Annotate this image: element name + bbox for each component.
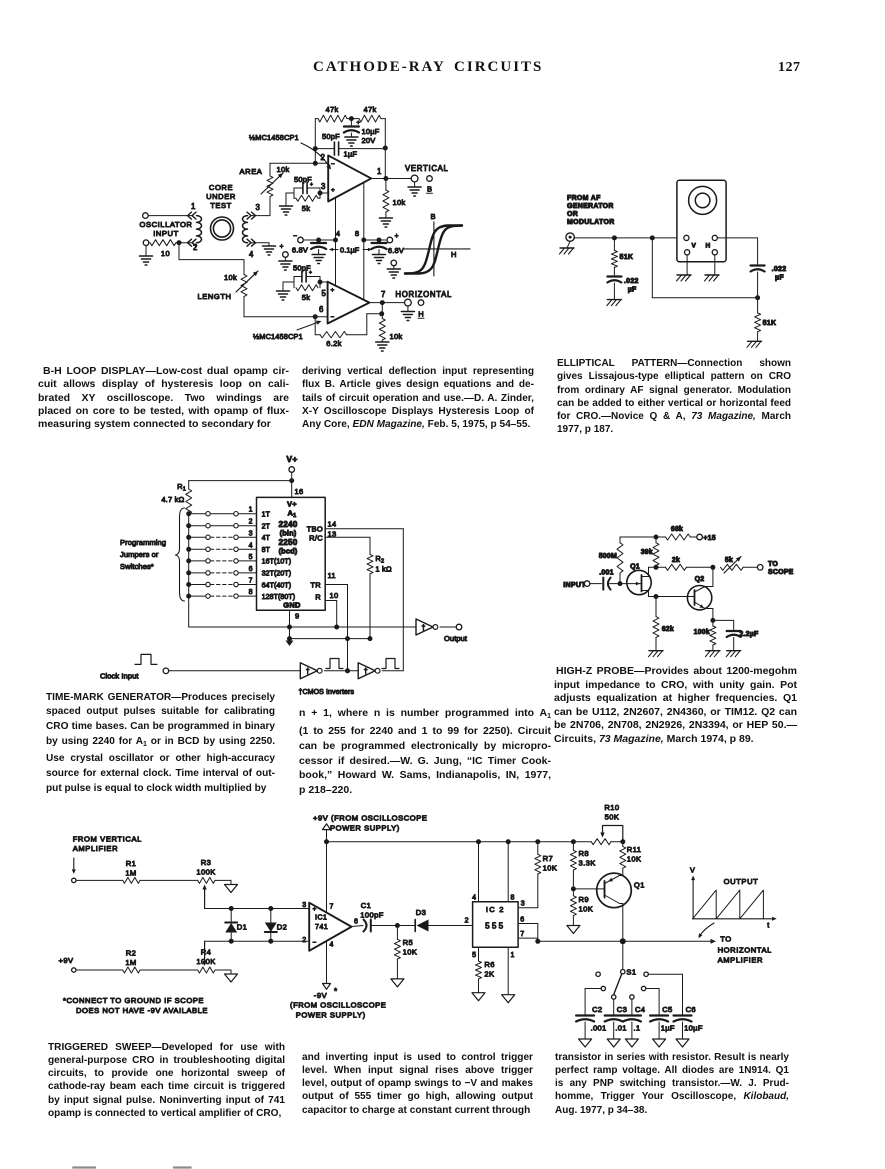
- svg-text:4: 4: [336, 229, 340, 238]
- svg-text:FROM AF: FROM AF: [567, 195, 601, 202]
- label bcd: [279, 547, 298, 556]
- label S1: [626, 968, 636, 977]
- wire pin1 down: [507, 947, 509, 994]
- ground under vertical jack: [408, 187, 421, 196]
- wire R3 to ground arm: [215, 880, 231, 883]
- label H scope: [706, 243, 711, 250]
- svg-text:OR: OR: [567, 211, 578, 218]
- svg-text:10k: 10k: [393, 198, 406, 207]
- label V+ top: [286, 454, 297, 464]
- terminal sweep input: [72, 878, 76, 882]
- svg-text:R1: R1: [126, 859, 137, 868]
- wire contact to C5: [646, 989, 659, 1016]
- svg-text:AMPLIFIER: AMPLIFIER: [73, 844, 119, 853]
- hysteresis loop: [405, 226, 462, 274]
- oscilloscope screen: [689, 186, 717, 214]
- svg-text:H: H: [706, 243, 711, 250]
- svg-text:TR: TR: [310, 581, 321, 590]
- capacitor .022uF right: [751, 238, 765, 313]
- svg-text:4: 4: [472, 895, 476, 902]
- leader arrow to U1b: [297, 321, 322, 330]
- svg-text:*CONNECT TO GROUND IF SCOPE: *CONNECT TO GROUND IF SCOPE: [63, 996, 204, 1005]
- node junction at 10 ohm output: [177, 240, 182, 245]
- svg-text:.001: .001: [591, 1024, 607, 1033]
- hysteresis axes: [403, 222, 470, 276]
- svg-text:INPUT: INPUT: [153, 229, 179, 238]
- resistor R2 1k: [367, 554, 373, 638]
- svg-text:6.8V: 6.8V: [388, 246, 404, 255]
- svg-text:3.3K: 3.3K: [579, 859, 596, 868]
- terminal V upper: [684, 235, 689, 240]
- node pins67: [535, 939, 540, 944]
- capacitor .022uF left: [607, 277, 621, 300]
- label VERTICAL: [405, 164, 449, 173]
- page header: [313, 59, 543, 76]
- wire winding4 to ground: [251, 243, 269, 246]
- ground under coax: [560, 241, 575, 254]
- svg-text:5: 5: [322, 289, 327, 298]
- label pin 4 supply: [336, 229, 340, 238]
- wire opamp out to C1: [352, 926, 363, 927]
- ground under 10k vertical: [379, 218, 392, 227]
- label R5: [403, 938, 414, 947]
- label GND inside: [283, 601, 301, 610]
- wire V+ to R1: [189, 480, 292, 482]
- transistor Q1 pnp: [597, 873, 632, 941]
- svg-text:10: 10: [161, 249, 170, 258]
- switch contact C2: [601, 986, 605, 990]
- svg-text:32T(20T): 32T(20T): [262, 571, 292, 578]
- svg-text:10K: 10K: [579, 905, 594, 914]
- wire output2 down: [381, 303, 383, 319]
- resistor R1 1M: [123, 877, 140, 883]
- svg-text:7: 7: [520, 931, 525, 938]
- svg-text:AMPLIFIER: AMPLIFIER: [718, 955, 764, 964]
- svg-text:INPUT: INPUT: [563, 582, 586, 589]
- label 68k: [671, 526, 683, 533]
- label 10k length: [224, 273, 237, 282]
- scan mark right: [173, 1166, 192, 1168]
- node between 47k: [349, 116, 354, 121]
- resistor 500M: [617, 537, 623, 584]
- svg-text:+: +: [331, 287, 335, 294]
- svg-text:14: 14: [328, 520, 337, 529]
- node R7 rail top: [535, 839, 540, 844]
- label AREA: [240, 167, 263, 176]
- label pin 3: [256, 203, 261, 212]
- jumper input pin 5 16T(10T): [186, 554, 291, 566]
- wire contact to C4: [631, 999, 633, 1015]
- svg-text:R1: R1: [177, 482, 186, 493]
- resistor R8 3.3K: [570, 842, 576, 889]
- node input rail 1: [612, 235, 617, 240]
- ground under 51K right: [747, 341, 762, 347]
- svg-text:5k: 5k: [302, 204, 311, 213]
- svg-text:2.2µF: 2.2µF: [739, 631, 759, 638]
- label pin3 555: [521, 901, 526, 908]
- label pin 7 IC1: [330, 904, 335, 911]
- svg-text:TEST: TEST: [210, 201, 232, 210]
- label LENGTH: [197, 292, 231, 301]
- wire input row 1: [76, 879, 198, 881]
- terminal V lower: [685, 250, 690, 255]
- svg-text:741: 741: [315, 922, 328, 931]
- inverter 2: [358, 663, 380, 679]
- label pin 7 opamp: [381, 290, 386, 299]
- label 47k first: [326, 105, 339, 114]
- svg-text:3: 3: [302, 902, 306, 909]
- svg-text:10k: 10k: [390, 332, 403, 341]
- svg-text:1M: 1M: [125, 869, 136, 878]
- svg-text:6: 6: [520, 917, 525, 924]
- svg-text:D3: D3: [416, 908, 427, 917]
- terminal oscillator input bottom: [143, 240, 149, 246]
- wire feedback 6.2k: [315, 314, 382, 335]
- terminal H upper: [712, 235, 717, 240]
- svg-text:6: 6: [319, 305, 324, 314]
- svg-text:t: t: [767, 921, 769, 930]
- svg-text:2T: 2T: [262, 524, 271, 531]
- ground aux right: [387, 269, 400, 278]
- label pin 16: [295, 487, 304, 496]
- wire lower loop: [652, 238, 757, 298]
- label Q2 probe: [695, 576, 705, 583]
- svg-text:LENGTH: LENGTH: [197, 292, 231, 301]
- svg-text:9: 9: [295, 612, 299, 621]
- svg-text:MODULATOR: MODULATOR: [567, 219, 615, 226]
- svg-text:C6: C6: [686, 1005, 696, 1014]
- node pin4 rail top: [476, 839, 481, 844]
- label 51K right: [763, 320, 777, 327]
- capacitor 2.2uF: [727, 631, 741, 651]
- svg-text:C4: C4: [635, 1005, 645, 1014]
- terminal coax input: [566, 233, 574, 241]
- resistor 68k: [666, 534, 691, 540]
- switch contact C5: [641, 986, 645, 990]
- svg-text:−: −: [331, 314, 335, 321]
- capacitor 1uF: [334, 142, 338, 155]
- label pin 11: [328, 571, 336, 580]
- ground under .022 left: [607, 300, 622, 306]
- wire contact to C6: [648, 974, 682, 1015]
- wire minus 9V vertical: [326, 941, 328, 984]
- svg-text:DOES NOT HAVE -9V AVAILABLE: DOES NOT HAVE -9V AVAILABLE: [76, 1006, 208, 1015]
- svg-text:4: 4: [249, 250, 254, 259]
- svg-text:Q1: Q1: [630, 564, 640, 571]
- svg-text:10: 10: [330, 591, 339, 600]
- label connect to ground note: [63, 996, 208, 1015]
- potentiometer LENGTH 10k: [236, 271, 258, 297]
- svg-text:−: −: [313, 940, 317, 947]
- svg-text:2: 2: [302, 937, 306, 944]
- wire cap to gate: [610, 583, 627, 585]
- label R10 50K: [605, 813, 620, 822]
- opamp U1a: [328, 155, 371, 201]
- label Output: [444, 634, 468, 643]
- wire pin4 vertical: [335, 198, 337, 286]
- svg-text:50pF: 50pF: [322, 132, 340, 141]
- opamp U1b: [328, 282, 370, 324]
- wire pin4 down: [478, 842, 480, 902]
- potentiometer 5k probe: [721, 557, 744, 574]
- svg-text:8: 8: [249, 589, 253, 596]
- resistor 47k second: [351, 115, 385, 122]
- svg-text:16: 16: [295, 487, 304, 496]
- label Programming Jumpers or Switches: [120, 538, 166, 571]
- svg-text:†: †: [364, 669, 368, 676]
- label INPUT: [563, 582, 586, 589]
- svg-text:R2: R2: [375, 554, 384, 565]
- capacitor C4 .1: [623, 1005, 645, 1039]
- switch contact C6: [644, 972, 648, 976]
- capacitor C3 .01: [605, 1005, 627, 1039]
- label R1: [126, 859, 137, 868]
- capacitor 50pF a: [303, 182, 313, 194]
- svg-text:1T: 1T: [262, 512, 271, 519]
- svg-text:R4: R4: [201, 948, 212, 957]
- svg-text:4: 4: [330, 942, 335, 949]
- wire source to Q2 base: [656, 596, 688, 598]
- svg-text:+: +: [357, 121, 361, 127]
- label 10: [161, 249, 170, 258]
- terminal oscillator input top: [143, 213, 149, 219]
- svg-text:R10: R10: [604, 803, 619, 812]
- label R7: [543, 854, 554, 863]
- label 1uF: [344, 150, 358, 159]
- node gate: [618, 581, 623, 586]
- label C1: [361, 901, 372, 910]
- jumper input pin 1 1T: [186, 507, 270, 519]
- wire node2 up: [314, 119, 316, 164]
- label 6.8V left: [292, 246, 308, 255]
- label OSCILLATOR INPUT: [140, 220, 193, 238]
- svg-text:(FROM OSCILLOSCOPE: (FROM OSCILLOSCOPE: [290, 1001, 386, 1010]
- node lineB TR: [345, 636, 350, 641]
- ground aux left: [279, 261, 292, 270]
- svg-text:64T(40T): 64T(40T): [262, 582, 292, 589]
- node feedback left: [313, 146, 318, 151]
- svg-text:H: H: [418, 310, 423, 319]
- ground under oscillator input: [140, 246, 153, 266]
- label pin 3 opamp: [321, 182, 326, 191]
- svg-text:V+: V+: [287, 500, 297, 509]
- svg-text:-9V: -9V: [314, 991, 328, 1000]
- label 50pF upper: [322, 132, 340, 141]
- ground cap left: [312, 255, 325, 264]
- label t axis: [767, 921, 769, 930]
- label R2: [375, 554, 384, 565]
- svg-text:3: 3: [256, 203, 261, 212]
- label B terminal: [427, 185, 433, 194]
- wire GND pin 9: [289, 610, 291, 638]
- label minus U1b: [331, 314, 335, 321]
- svg-text:+15: +15: [703, 535, 715, 542]
- terminal input probe: [584, 581, 590, 587]
- svg-text:−: −: [331, 161, 335, 168]
- ground at winding 4: [263, 246, 276, 255]
- label .022uF right: [772, 266, 787, 282]
- svg-text:TO: TO: [720, 935, 732, 944]
- diode D2: [265, 909, 277, 942]
- svg-text:Switches*: Switches*: [120, 562, 154, 571]
- inverter 3 output: [416, 619, 438, 635]
- svg-text:16T(10T): 16T(10T): [262, 559, 292, 566]
- node D1 bottom: [229, 939, 234, 944]
- label 50pF a: [294, 175, 312, 184]
- wire 68k to +15: [690, 536, 697, 538]
- label 0.1uF: [340, 245, 360, 254]
- transistor Q1 fet: [627, 567, 656, 596]
- svg-text:2K: 2K: [484, 970, 494, 979]
- label 741: [315, 922, 328, 931]
- node lineB RC: [368, 636, 373, 641]
- svg-text:500M: 500M: [599, 553, 617, 560]
- svg-text:FROM VERTICAL: FROM VERTICAL: [73, 835, 142, 844]
- resistor 10 ohm: [150, 240, 176, 246]
- node D1 top: [229, 906, 234, 911]
- svg-text:Jumpers or: Jumpers or: [120, 550, 159, 559]
- svg-text:C5: C5: [662, 1005, 672, 1014]
- label D2: [277, 923, 287, 932]
- node feedback right: [383, 146, 388, 151]
- label pin 14: [328, 520, 337, 529]
- inverter 1: [300, 663, 322, 679]
- ground triangle R3: [225, 885, 238, 893]
- resistor 10k vertical out: [383, 179, 389, 219]
- svg-text:D2: D2: [277, 923, 287, 932]
- opamp IC1 741: [309, 903, 351, 951]
- svg-text:39k: 39k: [641, 549, 653, 556]
- label FROM VERTICAL AMPLIFIER: [73, 835, 142, 854]
- label 50pF b: [293, 264, 311, 273]
- arrow from vertical amplifier: [72, 858, 76, 874]
- label 47k second: [364, 105, 377, 114]
- label 100k: [694, 629, 710, 636]
- svg-text:GENERATOR: GENERATOR: [567, 203, 614, 210]
- node 39k bottom: [654, 565, 659, 570]
- node Q1 collector rail: [620, 938, 626, 944]
- label Q1 probe: [630, 564, 640, 571]
- terminal plus aux left: [280, 244, 289, 262]
- wire contact to C3: [613, 999, 615, 1015]
- brace programming: [176, 508, 185, 601]
- svg-text:128T(80T): 128T(80T): [262, 594, 296, 601]
- label H terminal: [418, 310, 424, 319]
- label pin 13: [328, 530, 337, 539]
- label pin 4 IC1: [330, 942, 335, 949]
- svg-text:C1: C1: [361, 901, 372, 910]
- resistor 51K right: [755, 313, 761, 341]
- wire right vertical 47k to output: [384, 119, 386, 179]
- svg-text:µF: µF: [628, 287, 637, 294]
- resistor R6 2K: [476, 961, 482, 979]
- label pin 6 IC1: [354, 919, 359, 926]
- svg-text:Output: Output: [444, 634, 468, 643]
- label 2250: [278, 538, 297, 547]
- svg-text:Programming: Programming: [120, 538, 166, 547]
- label pin 1: [191, 202, 196, 211]
- label R3: [201, 858, 212, 867]
- svg-text:POWER SUPPLY): POWER SUPPLY): [330, 823, 400, 832]
- svg-text:10K: 10K: [627, 855, 642, 864]
- ground triangle C2: [579, 1039, 592, 1047]
- svg-text:10µF: 10µF: [362, 127, 380, 136]
- label pin1 555: [511, 952, 516, 959]
- terminal minus aux right: [391, 260, 397, 269]
- label V axis: [690, 866, 695, 875]
- svg-text:100k: 100k: [694, 629, 710, 636]
- label pin 6 opamp: [319, 305, 324, 314]
- svg-text:.022: .022: [772, 266, 787, 273]
- label 39k: [641, 549, 653, 556]
- label OUTPUT sweep: [724, 877, 759, 886]
- ground under 2.2uF: [726, 651, 741, 657]
- node emitter junction: [710, 618, 715, 623]
- wire pin7: [518, 937, 538, 939]
- svg-text:OSCILLATOR: OSCILLATOR: [140, 220, 193, 229]
- svg-text:C3: C3: [617, 1005, 627, 1014]
- arrow to left cap: [329, 248, 338, 252]
- label plus IC1: [313, 906, 317, 913]
- label .001: [599, 570, 613, 577]
- svg-text:R3: R3: [201, 858, 212, 867]
- capacitor 50pF b: [302, 270, 312, 282]
- label plus U1a: [331, 187, 335, 194]
- node R8 R9 base: [571, 886, 576, 891]
- svg-text:6: 6: [249, 566, 253, 573]
- node lineB gnd: [287, 636, 292, 641]
- node pin5: [318, 280, 323, 285]
- svg-text:½MC1458CP1: ½MC1458CP1: [249, 133, 299, 142]
- node 2k right: [710, 565, 715, 570]
- terminal horizontal jack: [405, 299, 412, 311]
- svg-text:8: 8: [355, 229, 359, 238]
- svg-text:+: +: [280, 244, 284, 251]
- page number: [778, 60, 801, 76]
- wire input to cap: [590, 583, 602, 585]
- scan mark left: [72, 1166, 96, 1168]
- label R1 1M: [125, 869, 136, 878]
- potentiometer AREA 10k: [261, 173, 283, 197]
- wiper R4 up: [202, 941, 206, 966]
- wire pin8 vertical: [363, 183, 365, 300]
- label pin6 555: [520, 917, 525, 924]
- ground under 10k horizontal: [376, 342, 389, 351]
- resistor R2 1M: [123, 967, 140, 973]
- label pin 2: [193, 243, 198, 252]
- wire oscillator input top to winding 1: [148, 215, 193, 217]
- wire 5k to scope: [743, 566, 757, 568]
- terminal vertical B: [427, 176, 433, 182]
- transistor Q2: [687, 567, 713, 620]
- wire input rail: [574, 237, 683, 239]
- svg-text:68k: 68k: [671, 526, 683, 533]
- resistor 62k: [653, 597, 659, 651]
- wire D3 to 555: [429, 925, 473, 927]
- label R2 1M: [125, 958, 136, 967]
- wire V+ down to IC: [291, 472, 293, 497]
- terminal clock input: [163, 668, 169, 674]
- node R5 top: [395, 923, 400, 928]
- label +15: [703, 535, 715, 542]
- svg-text:Q2: Q2: [695, 576, 705, 583]
- svg-text:62k: 62k: [662, 626, 674, 633]
- node D2 top: [268, 906, 273, 911]
- svg-text:7: 7: [249, 578, 253, 585]
- label TR: [310, 581, 321, 590]
- wire TBO pin 14: [325, 529, 403, 627]
- bus wire bottom: [189, 626, 416, 628]
